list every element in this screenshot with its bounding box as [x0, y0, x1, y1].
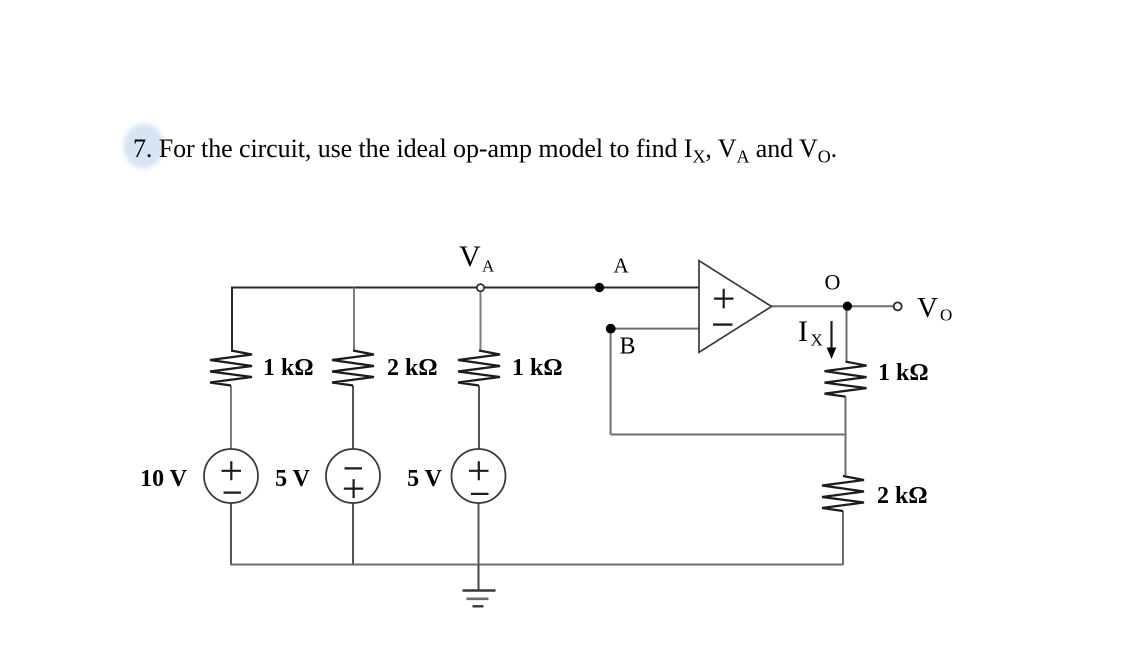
V1 minus sign	[224, 492, 242, 494]
wire: bottom ground bus	[230, 564, 843, 566]
node O junction dot	[843, 302, 852, 311]
op-amp inverting input minus symbol	[713, 323, 733, 325]
svg-text:1 kΩ: 1 kΩ	[878, 360, 929, 386]
svg-text:V: V	[459, 240, 481, 273]
V3 minus sign	[471, 493, 489, 495]
V2 minus sign (top)	[345, 467, 363, 469]
svg-text:O: O	[825, 270, 841, 295]
wire: top horizontal bus from left branch to op-amp noninverting input	[232, 288, 699, 351]
svg-text:I: I	[798, 315, 808, 348]
svg-text:X: X	[811, 331, 823, 350]
resistor R1 1k	[210, 351, 252, 386]
svg-text:5 V: 5 V	[407, 466, 443, 492]
op-amp noninverting input plus symbol	[714, 289, 734, 309]
svg-text:A: A	[482, 257, 495, 276]
resistor R3 1k	[458, 351, 500, 386]
wire: feedback horizontal to right branch	[611, 434, 846, 436]
svg-text:1 kΩ: 1 kΩ	[512, 355, 563, 381]
resistor R2 2k	[332, 351, 374, 386]
svg-text:10 V: 10 V	[140, 466, 188, 492]
terminal VO open circle	[894, 302, 902, 310]
op-amp U1 triangle	[699, 261, 772, 353]
node A junction dot	[595, 283, 604, 292]
wire: V1 bottom lead to bottom bus	[230, 503, 232, 565]
wire: R3 bottom lead to source V3	[478, 386, 480, 450]
svg-text:2 kΩ: 2 kΩ	[387, 355, 438, 381]
svg-text:1 kΩ: 1 kΩ	[263, 355, 314, 381]
wire: V2 bottom lead to bottom bus	[352, 503, 354, 565]
wire: branch2 vertical from top bus to resistor R2	[353, 288, 355, 351]
wire: R1 bottom lead to source V1	[230, 386, 232, 450]
V1 plus sign	[222, 461, 242, 480]
wire: R5 bottom to bottom bus	[842, 511, 844, 565]
svg-text:5 V: 5 V	[275, 466, 311, 492]
wire: node B stub to op-amp inverting input	[611, 328, 699, 330]
node B junction dot	[606, 324, 616, 334]
voltage source V1 10V	[204, 449, 258, 503]
node VA open circle	[477, 284, 484, 291]
ground symbol bars	[463, 589, 496, 591]
svg-text:A: A	[614, 254, 630, 278]
wire: R4 bottom to feedback junction and resistor R5	[845, 397, 847, 476]
wire: R2 bottom lead to source V2	[352, 386, 354, 450]
V2 plus sign (bottom)	[344, 479, 364, 498]
wire: node O down to resistor R4	[846, 306, 848, 361]
wire: branch3 vertical from node VA to resistor R3	[480, 291, 482, 351]
current IX arrow	[830, 321, 832, 349]
voltage source V3 5V	[452, 449, 506, 503]
svg-text:2 kΩ: 2 kΩ	[877, 483, 928, 509]
svg-text:V: V	[917, 292, 938, 324]
wire: op-amp output to terminal VO	[772, 305, 894, 307]
wire: node B vertical feedback drop	[610, 329, 612, 435]
V3 plus sign	[469, 461, 489, 480]
ground stem	[478, 565, 480, 591]
svg-text:O: O	[940, 306, 952, 325]
wire: V3 bottom lead to bottom bus	[478, 503, 480, 565]
svg-text:7. For the circuit, use the id: 7. For the circuit, use the ideal op-amp…	[133, 134, 837, 167]
resistor R5 2k right branch	[822, 476, 864, 511]
highlight behind problem number	[124, 124, 164, 169]
svg-text:B: B	[620, 334, 636, 360]
resistor R4 1k right branch	[825, 362, 867, 397]
voltage source V2 5V	[326, 449, 380, 503]
